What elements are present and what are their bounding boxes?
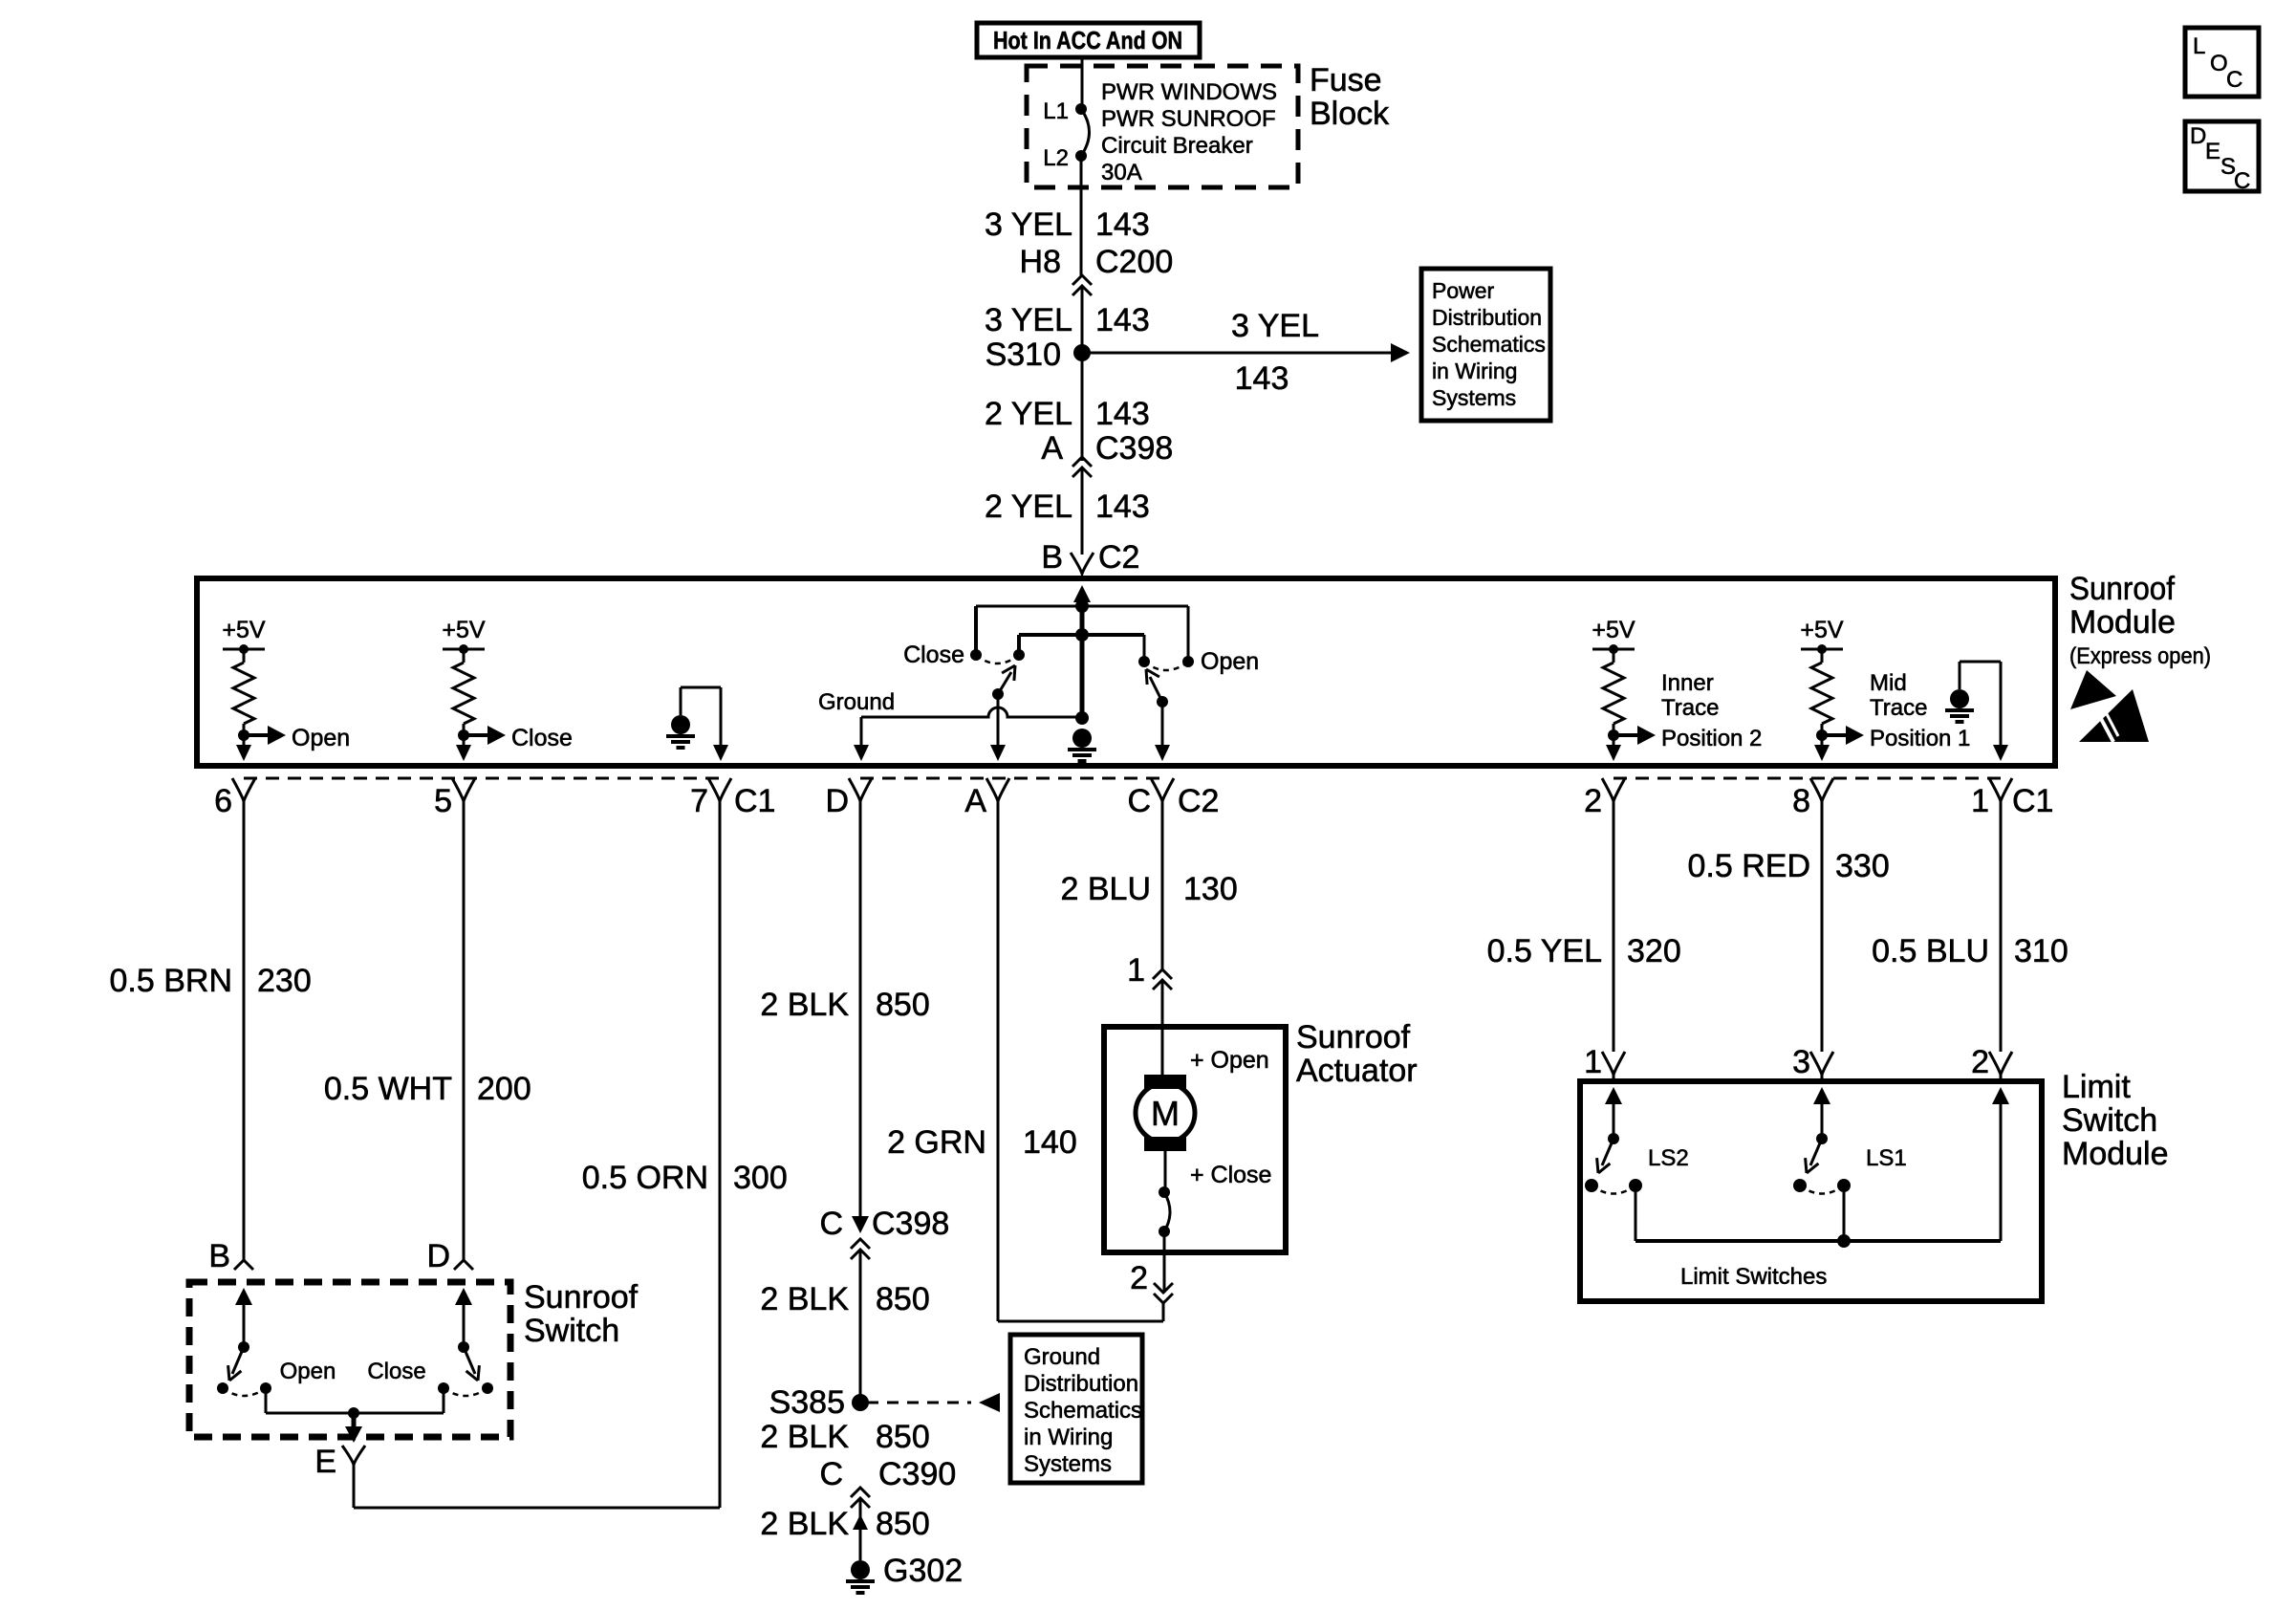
svg-text:1: 1 — [1584, 1044, 1602, 1080]
svg-text:A: A — [1041, 430, 1063, 467]
svg-text:PWR SUNROOF: PWR SUNROOF — [1101, 106, 1276, 132]
svg-text:Inner: Inner — [1661, 670, 1714, 696]
svg-text:2 YEL: 2 YEL — [985, 489, 1072, 525]
svg-text:8: 8 — [1792, 783, 1810, 819]
svg-text:C200: C200 — [1095, 244, 1173, 280]
svg-text:2 YEL: 2 YEL — [985, 396, 1072, 432]
svg-text:in Wiring: in Wiring — [1432, 359, 1517, 383]
svg-text:+ Close: + Close — [1190, 1162, 1271, 1188]
svg-text:+ Open: + Open — [1190, 1047, 1269, 1074]
svg-text:2 BLK: 2 BLK — [760, 1281, 849, 1317]
svg-text:L: L — [2193, 33, 2205, 59]
svg-text:Power: Power — [1432, 278, 1495, 303]
svg-text:1: 1 — [1127, 952, 1145, 989]
svg-text:Open: Open — [280, 1359, 336, 1384]
svg-text:Close: Close — [511, 725, 573, 751]
svg-text:143: 143 — [1095, 489, 1150, 525]
svg-text:C2: C2 — [1098, 539, 1139, 576]
svg-text:Switch: Switch — [2062, 1102, 2157, 1139]
svg-text:1: 1 — [1971, 783, 1989, 819]
svg-text:Actuator: Actuator — [1296, 1053, 1418, 1089]
svg-text:7: 7 — [690, 783, 708, 819]
svg-text:LS1: LS1 — [1866, 1145, 1907, 1171]
svg-text:A: A — [964, 783, 986, 819]
svg-text:0.5 ORN: 0.5 ORN — [582, 1160, 708, 1196]
svg-text:L2: L2 — [1043, 145, 1069, 171]
svg-text:850: 850 — [876, 1506, 930, 1542]
svg-text:310: 310 — [2014, 933, 2069, 969]
svg-text:Open: Open — [292, 725, 350, 751]
svg-text:C1: C1 — [2012, 783, 2053, 819]
svg-text:Module: Module — [2062, 1136, 2169, 1172]
svg-text:Sunroof: Sunroof — [524, 1279, 639, 1316]
svg-text:S310: S310 — [986, 337, 1061, 373]
svg-text:143: 143 — [1095, 207, 1150, 243]
svg-text:850: 850 — [876, 1281, 930, 1317]
svg-text:C1: C1 — [734, 783, 775, 819]
svg-text:Schematics: Schematics — [1024, 1398, 1142, 1424]
svg-text:2 BLK: 2 BLK — [760, 987, 849, 1023]
svg-text:C390: C390 — [878, 1456, 956, 1492]
svg-text:2: 2 — [1130, 1260, 1148, 1296]
svg-text:Position 1: Position 1 — [1870, 726, 1970, 751]
svg-text:2 BLK: 2 BLK — [760, 1419, 849, 1455]
svg-text:O: O — [2210, 51, 2228, 76]
svg-text:2 BLK: 2 BLK — [760, 1506, 849, 1542]
svg-text:Distribution: Distribution — [1432, 305, 1542, 330]
svg-text:3 YEL: 3 YEL — [985, 302, 1072, 338]
svg-text:Close: Close — [367, 1359, 425, 1384]
svg-text:D: D — [426, 1238, 450, 1274]
svg-text:Distribution: Distribution — [1024, 1371, 1138, 1397]
svg-text:C: C — [2234, 168, 2250, 194]
svg-text:Module: Module — [2069, 604, 2176, 641]
svg-text:143: 143 — [1095, 396, 1150, 432]
svg-text:Position 2: Position 2 — [1661, 726, 1762, 751]
svg-text:0.5 YEL: 0.5 YEL — [1487, 933, 1602, 969]
svg-text:3 YEL: 3 YEL — [985, 207, 1072, 243]
svg-text:Limit Switches: Limit Switches — [1680, 1264, 1827, 1290]
svg-text:L1: L1 — [1043, 98, 1069, 124]
svg-text:PWR WINDOWS: PWR WINDOWS — [1101, 79, 1277, 105]
svg-text:320: 320 — [1627, 933, 1681, 969]
svg-text:Fuse: Fuse — [1310, 62, 1382, 98]
svg-text:+5V: +5V — [1592, 617, 1635, 643]
svg-text:850: 850 — [876, 1419, 930, 1455]
svg-text:+5V: +5V — [442, 617, 486, 643]
svg-text:2 GRN: 2 GRN — [887, 1124, 986, 1161]
svg-text:D: D — [825, 783, 849, 819]
svg-text:M: M — [1151, 1094, 1180, 1133]
svg-text:Sunroof: Sunroof — [2069, 571, 2176, 607]
svg-text:0.5 RED: 0.5 RED — [1688, 848, 1811, 884]
svg-text:G302: G302 — [883, 1553, 963, 1589]
svg-text:Circuit Breaker: Circuit Breaker — [1101, 133, 1253, 159]
svg-text:C398: C398 — [1095, 430, 1173, 467]
svg-text:2: 2 — [1971, 1044, 1989, 1080]
svg-text:S385: S385 — [769, 1384, 845, 1421]
svg-text:(Express open): (Express open) — [2069, 643, 2211, 669]
svg-text:C2: C2 — [1178, 783, 1219, 819]
svg-text:143: 143 — [1235, 360, 1289, 397]
svg-text:+5V: +5V — [222, 617, 266, 643]
svg-text:+5V: +5V — [1800, 617, 1844, 643]
svg-text:H8: H8 — [1020, 244, 1061, 280]
svg-text:330: 330 — [1835, 848, 1890, 884]
svg-text:Mid: Mid — [1870, 670, 1907, 696]
svg-text:130: 130 — [1183, 871, 1238, 907]
svg-text:Systems: Systems — [1024, 1451, 1112, 1477]
svg-text:Systems: Systems — [1432, 385, 1516, 410]
svg-text:30A: 30A — [1101, 160, 1142, 185]
svg-text:C: C — [1127, 783, 1151, 819]
svg-text:850: 850 — [876, 987, 930, 1023]
svg-text:B: B — [1041, 539, 1063, 576]
svg-text:C: C — [2226, 67, 2242, 93]
svg-text:Ground: Ground — [1024, 1344, 1100, 1370]
svg-text:200: 200 — [477, 1071, 531, 1107]
svg-text:Block: Block — [1310, 96, 1390, 132]
svg-text:E: E — [314, 1444, 336, 1480]
svg-text:0.5 BLU: 0.5 BLU — [1872, 933, 1989, 969]
svg-text:Sunroof: Sunroof — [1296, 1019, 1411, 1055]
svg-text:Limit: Limit — [2062, 1069, 2131, 1105]
svg-text:Ground: Ground — [818, 689, 895, 715]
svg-text:2: 2 — [1584, 783, 1602, 819]
svg-text:300: 300 — [733, 1160, 788, 1196]
svg-text:in Wiring: in Wiring — [1024, 1425, 1113, 1450]
svg-text:0.5 BRN: 0.5 BRN — [110, 963, 233, 999]
svg-text:Hot In ACC And ON: Hot In ACC And ON — [993, 26, 1182, 54]
svg-text:230: 230 — [257, 963, 312, 999]
svg-text:D: D — [2190, 123, 2206, 149]
svg-text:C398: C398 — [872, 1206, 949, 1242]
svg-text:6: 6 — [214, 783, 232, 819]
svg-text:140: 140 — [1023, 1124, 1077, 1161]
svg-text:3: 3 — [1792, 1044, 1810, 1080]
svg-text:0.5 WHT: 0.5 WHT — [324, 1071, 452, 1107]
svg-text:Trace: Trace — [1661, 695, 1719, 721]
svg-text:143: 143 — [1095, 302, 1150, 338]
svg-text:Switch: Switch — [524, 1313, 619, 1349]
svg-text:B: B — [208, 1238, 230, 1274]
svg-text:Schematics: Schematics — [1432, 332, 1546, 357]
svg-text:LS2: LS2 — [1648, 1145, 1689, 1171]
svg-text:Open: Open — [1201, 648, 1259, 675]
svg-text:2 BLU: 2 BLU — [1061, 871, 1152, 907]
svg-text:3 YEL: 3 YEL — [1231, 308, 1319, 344]
svg-text:Trace: Trace — [1870, 695, 1927, 721]
svg-text:5: 5 — [434, 783, 452, 819]
svg-text:E: E — [2205, 139, 2220, 164]
svg-text:C: C — [819, 1456, 843, 1492]
svg-text:C: C — [819, 1206, 843, 1242]
svg-text:Close: Close — [903, 642, 964, 668]
